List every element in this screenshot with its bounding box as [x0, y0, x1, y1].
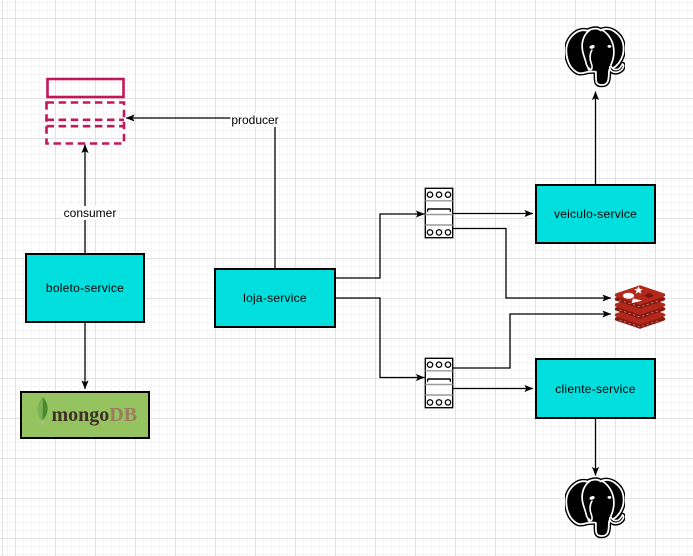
- wire breaker 1 to redis: [453, 229, 611, 299]
- queue (crimson dashed shape): [42, 74, 132, 154]
- postgres elephant top: [565, 26, 625, 90]
- breaker 1 (circuit breaker icon top): [424, 187, 454, 239]
- wire breaker 2 to redis: [453, 314, 612, 368]
- wire cliente-service to postgres bottom: [595, 419, 597, 476]
- mongoDB box: [20, 391, 150, 439]
- queue dashed body rect: [47, 103, 125, 144]
- wire veiculo-service to postgres top: [595, 92, 597, 185]
- wire boleto-service to mongoDB: [84, 323, 86, 389]
- redis icon: [614, 284, 666, 332]
- redis layer 3 (bottom): [617, 311, 664, 327]
- wire consumer: boleto-service to queue: [84, 145, 86, 254]
- mongo leaf: [38, 397, 48, 425]
- queue dashed divider 2: [47, 125, 125, 128]
- box cliente-service: [535, 358, 656, 419]
- mongoDB logo: [22, 393, 148, 437]
- postgres elephant bottom: [565, 477, 625, 541]
- breaker 2 (circuit breaker icon bottom): [424, 357, 454, 409]
- wire loja-service to breaker 2: [336, 298, 425, 378]
- wire breaker 1 to veiculo-service: [453, 213, 533, 215]
- queue solid top rect: [48, 79, 124, 97]
- redis top decorations: [623, 286, 654, 303]
- svg-text:mongoDB: mongoDB: [52, 404, 138, 426]
- redis layer 2: [617, 301, 664, 317]
- box loja-service: [214, 268, 336, 328]
- wire producer: loja-service to queue: [126, 118, 275, 268]
- queue dashed divider 1: [47, 119, 125, 122]
- wire loja-service to breaker 1: [336, 214, 425, 278]
- box boleto-service: [25, 253, 145, 323]
- wire breaker 2 to cliente-service: [453, 388, 534, 390]
- label producer: [230, 113, 279, 127]
- box veiculo-service: [535, 184, 656, 244]
- label consumer: [63, 206, 118, 220]
- layer separation highlights: [620, 300, 661, 327]
- redis layer 1 (top): [617, 291, 664, 307]
